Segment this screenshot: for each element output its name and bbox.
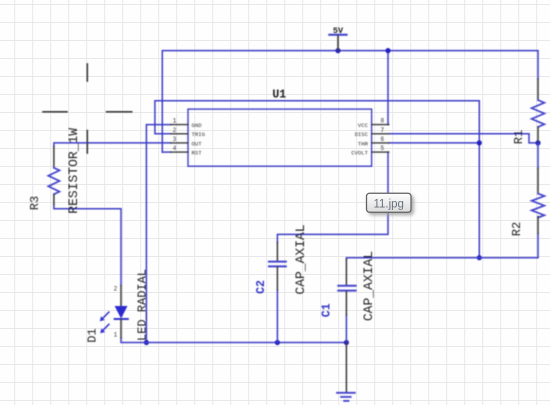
svg-text:5: 5: [380, 145, 384, 152]
svg-text:7: 7: [380, 127, 384, 134]
svg-text:TRIG: TRIG: [192, 131, 206, 138]
wire C2 bottom lead: [276, 290, 278, 343]
junction VCC riser dot: [385, 48, 390, 53]
wire DISC pin7 to R1/R2 junction: [389, 134, 538, 143]
svg-text:CAP_AXIAL: CAP_AXIAL: [293, 224, 308, 294]
svg-text:11.jpg: 11.jpg: [373, 199, 403, 211]
svg-text:1: 1: [114, 332, 118, 339]
cursor crosshair: [43, 64, 132, 153]
tooltip 11.jpg: [367, 193, 412, 212]
resistor R2: [510, 143, 544, 236]
svg-text:5V: 5V: [333, 26, 344, 36]
wire bottom rail: [121, 338, 346, 343]
svg-text:6: 6: [380, 136, 384, 143]
junction GND riser bottom dot: [144, 340, 149, 345]
svg-text:D1: D1: [85, 328, 99, 342]
svg-text:2: 2: [173, 127, 177, 134]
pin 5 CVOLT: [372, 151, 389, 153]
svg-text:VCC: VCC: [358, 122, 369, 129]
wire CVOLT pin5 to C2: [277, 152, 388, 242]
svg-text:C2: C2: [255, 280, 268, 294]
wire TRIG-THR node rail: [155, 101, 479, 258]
svg-text:OUT: OUT: [192, 140, 203, 147]
junction THR node dot: [477, 140, 482, 145]
op-amp U1 body: [171, 89, 389, 167]
svg-text:DISC: DISC: [355, 131, 369, 138]
resistor R3: [28, 128, 81, 214]
svg-text:2: 2: [114, 286, 118, 293]
pin 7 DISC: [372, 133, 389, 135]
svg-text:R3: R3: [28, 196, 42, 210]
pin 4 RST: [171, 151, 188, 153]
pin 3 OUT: [171, 142, 188, 144]
wire GND pin1 riser to bottom rail: [146, 125, 170, 343]
pin 8 VCC: [372, 124, 389, 126]
wire VCC riser: [387, 51, 389, 125]
wire RST pin4 to rail: [162, 151, 170, 153]
svg-text:1: 1: [173, 118, 177, 125]
svg-text:CAP_AXIAL: CAP_AXIAL: [361, 251, 376, 321]
svg-text:LED_RADIAL: LED_RADIAL: [136, 269, 150, 341]
junction R1/R2 dot: [535, 140, 540, 145]
junction 5V rail dot: [335, 48, 340, 53]
svg-text:RESISTOR_1W: RESISTOR_1W: [66, 128, 81, 214]
wire OUT pin3 to R3: [54, 143, 171, 147]
wire C1 bottom lead: [345, 315, 347, 343]
svg-text:THR: THR: [358, 140, 369, 147]
svg-text:8: 8: [380, 118, 384, 125]
svg-text:RST: RST: [192, 150, 203, 157]
LED arrow 2: [102, 324, 109, 331]
svg-text:R2: R2: [510, 222, 524, 236]
capacitor C2: [255, 224, 308, 294]
LED D1: [85, 269, 149, 343]
wire R2 bottom to C1 top: [346, 234, 538, 260]
svg-text:GND: GND: [192, 122, 203, 129]
svg-text:R1: R1: [512, 130, 526, 144]
svg-text:CVOLT: CVOLT: [351, 150, 368, 157]
svg-text:4: 4: [173, 145, 177, 152]
wire THR pin6: [389, 142, 480, 144]
svg-text:3: 3: [173, 136, 177, 143]
resistor R1: [512, 79, 544, 144]
svg-text:U1: U1: [272, 89, 286, 102]
junction C1/ground dot: [344, 340, 349, 345]
wire R3 bottom to LED top: [54, 205, 121, 286]
LED arrow 1: [102, 312, 109, 319]
power 5V symbol: [329, 26, 346, 51]
svg-text:C1: C1: [320, 303, 333, 317]
capacitor C1: [320, 251, 376, 321]
pin 1 GND: [171, 124, 188, 126]
wire top 5V rail: [162, 51, 538, 153]
junction node-C1 wire dot: [477, 255, 482, 260]
pin 2 TRIG: [171, 133, 188, 135]
pin 6 THR: [372, 142, 389, 144]
junction C2 bottom dot: [275, 340, 280, 345]
ground: [337, 343, 355, 401]
